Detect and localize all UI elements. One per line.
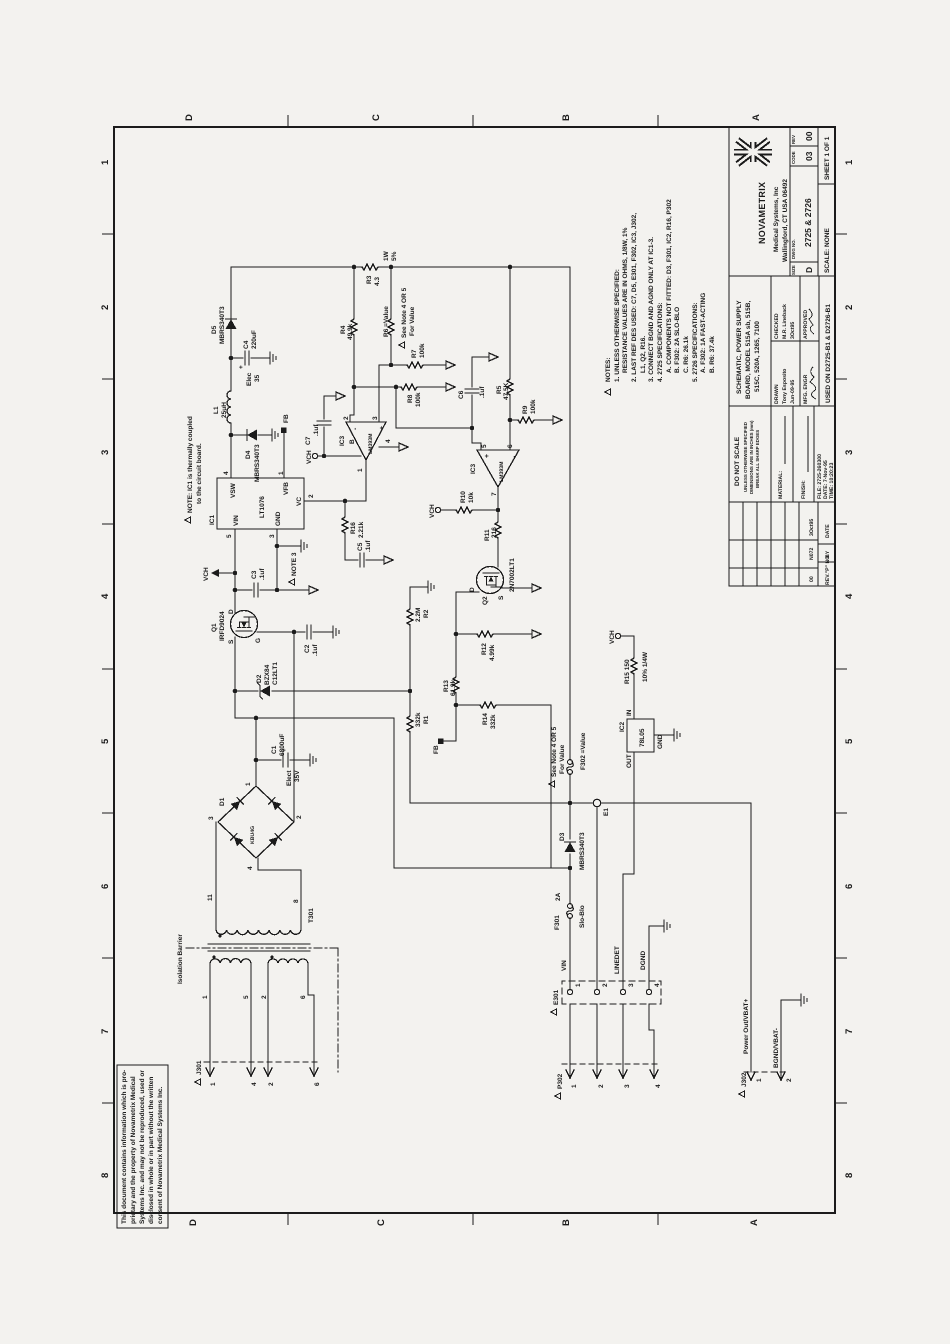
svg-text:3: 3: [624, 1084, 631, 1088]
svg-text:D: D: [184, 114, 195, 121]
svg-text:5: 5: [243, 995, 250, 999]
svg-text:1: 1: [210, 1082, 217, 1086]
fuse F301 2A: [567, 904, 574, 919]
svg-text:+: +: [379, 426, 386, 430]
node C6 junction: [470, 426, 475, 431]
connector J301 dashed line: [204, 1061, 320, 1063]
svg-text:consent of Novametrix Medical: consent of Novametrix Medical Systems In…: [157, 1087, 164, 1224]
svg-text:100k: 100k: [419, 343, 426, 358]
svg-text:J301: J301: [196, 1060, 203, 1075]
svg-text:.1uf: .1uf: [479, 386, 486, 398]
svg-text:NOTE: IC1 is thermally coupled: NOTE: IC1 is thermally coupled: [187, 416, 194, 513]
wire pin5 net vertical: [396, 427, 472, 429]
wire R13 FB line: [443, 592, 456, 741]
svg-text:See Note 4 OR 5: See Note 4 OR 5: [551, 726, 558, 777]
svg-text:C. R6: 26.1k: C. R6: 26.1k: [683, 336, 690, 373]
svg-text:L1, Q2, R16.: L1, Q2, R16.: [640, 336, 647, 373]
output rail vertical: [231, 266, 569, 268]
connector J301 label: [195, 1079, 201, 1085]
svg-text:+: +: [238, 365, 245, 369]
svg-text:UNLESS OTHERWISE SPECIFIED: UNLESS OTHERWISE SPECIFIED: [743, 422, 748, 492]
wire T301 pin11 to bridge AC: [215, 822, 217, 930]
IC3B VCH supply: [312, 453, 317, 458]
wire R9 vertical: [510, 419, 553, 421]
zone ticks bottom: [835, 234, 847, 1103]
wire R1 R2 line: [410, 587, 422, 803]
svg-text:disclosed in whole or in part: disclosed in whole or in part without th…: [148, 1077, 155, 1224]
svg-text:DGND: DGND: [640, 951, 647, 970]
svg-text:VSW: VSW: [230, 482, 237, 498]
transistor Q1 circle: [231, 611, 258, 638]
svg-text:1: 1: [575, 983, 582, 987]
svg-text:5: 5: [481, 444, 488, 448]
svg-text:D: D: [228, 609, 235, 614]
svg-text:to the circuit board.: to the circuit board.: [196, 443, 203, 504]
svg-text:DO NOT SCALE: DO NOT SCALE: [734, 436, 741, 486]
node C3 branch: [233, 588, 238, 593]
net arrow R8: [446, 383, 455, 391]
svg-text:A: A: [749, 1219, 760, 1226]
Novametrix logo: [734, 140, 772, 164]
svg-text:LM393M: LM393M: [368, 434, 374, 454]
svg-text:CHECKED: CHECKED: [774, 313, 780, 339]
wire gnd stub: [277, 545, 295, 547]
svg-text:MBRS340T3: MBRS340T3: [219, 306, 226, 344]
node C4 branch: [229, 356, 234, 361]
svg-text:B. R6: 37.4k: B. R6: 37.4k: [709, 336, 716, 373]
svg-text:R7: R7: [411, 349, 418, 358]
svg-text:2: 2: [296, 815, 303, 819]
node R8 link: [394, 385, 399, 390]
svg-text:B: B: [561, 114, 572, 121]
svg-text:1: 1: [357, 468, 364, 472]
P302 pin 2 arrow: [596, 1004, 598, 1076]
svg-text:2: 2: [844, 305, 855, 310]
svg-text:MBRS340T3: MBRS340T3: [254, 444, 261, 482]
wire winding1 pin5 to J301: [250, 963, 252, 1073]
wire Q1 source run: [234, 637, 236, 718]
svg-text:C7: C7: [305, 436, 312, 445]
svg-text:G: G: [255, 638, 262, 643]
diode D5 MBRS340T3: [226, 319, 237, 329]
net arrow C7: [336, 392, 345, 400]
bridge rectifier D1 KBU4G outline: [218, 786, 294, 858]
wire IC1 VC stub: [304, 500, 366, 502]
J302 pin 1 arrow: [747, 1072, 755, 1080]
node C7 branch: [322, 454, 327, 459]
svg-text:3: 3: [844, 450, 855, 455]
wire R12 vertical: [456, 633, 532, 635]
svg-text:Slo-Blo: Slo-Blo: [579, 905, 586, 928]
svg-text:2: 2: [100, 305, 111, 310]
svg-text:D: D: [804, 267, 814, 273]
svg-text:CODE: CODE: [791, 151, 796, 164]
node E1 branch: [568, 801, 573, 806]
node R8 drop: [352, 385, 357, 390]
svg-text:1: 1: [202, 995, 209, 999]
node rail R5: [508, 265, 513, 270]
svg-text:SCALE: NONE: SCALE: NONE: [824, 228, 831, 273]
svg-text:B: B: [349, 439, 356, 444]
F302 labels: [549, 781, 555, 787]
ground IC2: [668, 729, 680, 741]
svg-text:Q2: Q2: [482, 596, 489, 605]
wire winding1 pin1 to J301: [209, 963, 211, 1073]
svg-text:C: C: [371, 114, 382, 121]
node VCH spur: [233, 571, 238, 576]
ground DGND: [658, 920, 670, 932]
wire C3 to IC1 gnd pin: [276, 529, 278, 590]
wire VIN feed line: [569, 267, 571, 990]
svg-text:NOVAMETRIX: NOVAMETRIX: [757, 182, 767, 244]
svg-text:2.21k: 2.21k: [358, 521, 365, 538]
J302 label: [739, 1091, 745, 1097]
svg-text:GND: GND: [657, 734, 664, 749]
P302 pin 3 arrow: [622, 1004, 624, 1076]
connector J302 dashed line: [744, 1071, 788, 1073]
svg-text:3. CONNECT BGND AND AGND ONLY: 3. CONNECT BGND AND AGND ONLY AT IC1-3.: [648, 237, 655, 382]
wire Q2 source down: [502, 587, 532, 589]
svg-text:For Value: For Value: [409, 306, 416, 336]
svg-text:F302 =Value: F302 =Value: [580, 732, 587, 770]
svg-text:00: 00: [804, 131, 814, 141]
capacitor C2 .1uf: [294, 631, 327, 633]
node D2 branch: [233, 689, 238, 694]
svg-text:BY: BY: [825, 550, 831, 558]
node FB top: [281, 428, 287, 434]
svg-text:VFB: VFB: [283, 482, 290, 495]
op-amp IC3 section B: [346, 422, 386, 460]
svg-text:E1: E1: [603, 808, 610, 816]
svg-text:10% 1/4W: 10% 1/4W: [642, 651, 649, 682]
resistor R16 2.21k: [342, 515, 348, 533]
svg-text:Isolation Barrier: Isolation Barrier: [177, 934, 184, 984]
svg-text:515C, 520A, 1265, 7100: 515C, 520A, 1265, 7100: [754, 321, 761, 392]
wire IC2 out to pin3: [623, 752, 634, 989]
svg-text:DWG NO.: DWG NO.: [791, 239, 796, 259]
J301 pin 4 arrow: [247, 1068, 255, 1076]
svg-text:Power Out/VBAT+: Power Out/VBAT+: [743, 998, 750, 1054]
wire R14 vertical: [456, 705, 569, 868]
inductor L1 25uH: [227, 391, 231, 423]
svg-text:M.R. Lineback: M.R. Lineback: [782, 304, 788, 339]
svg-text:8: 8: [293, 899, 300, 903]
capacitor C5 .1uf: [360, 553, 364, 567]
svg-text:REV."P" NO.: REV."P" NO.: [825, 554, 831, 585]
ground below C2: [327, 626, 339, 638]
E301 label: [551, 1009, 557, 1015]
svg-text:B. F302: 2A SLO-BLO: B. F302: 2A SLO-BLO: [674, 307, 681, 373]
svg-text:LM393M: LM393M: [499, 462, 505, 482]
svg-text:332k: 332k: [415, 712, 422, 727]
wire D1 pin1 to rail: [255, 718, 257, 786]
svg-text:VC: VC: [296, 497, 303, 506]
svg-text:GND: GND: [275, 511, 282, 526]
svg-text:5: 5: [844, 738, 855, 744]
svg-text:F301: F301: [554, 915, 561, 930]
ground D4: [266, 429, 278, 441]
svg-text:4. 2725 SPECIFICATIONS:: 4. 2725 SPECIFICATIONS:: [657, 302, 664, 382]
resistor R10 10k: [456, 507, 474, 513]
svg-text:3Oct95: 3Oct95: [790, 322, 796, 339]
node rail R6: [389, 265, 394, 270]
svg-text:8: 8: [844, 1173, 855, 1178]
net arrow R9: [553, 416, 562, 424]
svg-text:T301: T301: [308, 908, 315, 923]
ground below C1: [304, 754, 316, 766]
main positive rail vertical: [235, 718, 569, 868]
svg-text:IC1: IC1: [209, 515, 216, 526]
resistor R11 216: [495, 520, 501, 538]
svg-text:IN: IN: [626, 709, 633, 716]
svg-text:6800uF: 6800uF: [279, 734, 286, 756]
svg-text:216: 216: [491, 527, 498, 538]
node R12 drop: [454, 632, 459, 637]
net arrow R12: [532, 630, 541, 638]
wire IC3A pin5 jog: [472, 428, 481, 450]
svg-text:C5: C5: [357, 542, 364, 551]
svg-text:Q1: Q1: [211, 623, 218, 632]
svg-text:4: 4: [100, 593, 111, 599]
VCH supply R10: [435, 507, 440, 512]
proprietary notice box: [117, 1065, 168, 1228]
svg-text:S: S: [228, 639, 235, 644]
node rail R4: [352, 265, 357, 270]
zener D2 BZX84: [258, 683, 271, 699]
zone numbers bottom: [844, 159, 855, 1178]
svg-text:A: A: [751, 114, 762, 121]
wire IC3B pin3 line: [378, 365, 380, 422]
wire winding2 pin6 to J301 with jog: [308, 963, 314, 1073]
svg-text:4.99k: 4.99k: [489, 644, 496, 661]
resistor R2 2.2M: [407, 607, 413, 625]
svg-text:Jun-09-95: Jun-09-95: [790, 380, 796, 404]
svg-text:Elec: Elec: [246, 372, 253, 386]
T301 polarity dot: [219, 935, 222, 938]
svg-text:6: 6: [300, 995, 307, 999]
svg-text:1: 1: [756, 1078, 763, 1082]
secondary winding 2: [268, 959, 308, 963]
resistor R14 332k: [480, 702, 498, 708]
svg-text:2: 2: [786, 1078, 793, 1082]
wire link to pin5 line: [395, 387, 397, 428]
svg-text:1: 1: [245, 782, 252, 786]
svg-text:R16: R16: [350, 522, 357, 534]
svg-text:NOTE 3: NOTE 3: [291, 552, 298, 576]
svg-text:.1uf: .1uf: [312, 644, 319, 656]
svg-text:5: 5: [226, 534, 233, 538]
svg-text:DIMENSIONS ARE IN INCHES (mm): DIMENSIONS ARE IN INCHES (mm): [749, 420, 754, 494]
svg-text:BREAK ALL SHARP EDGES: BREAK ALL SHARP EDGES: [755, 430, 760, 488]
svg-text:NOTES:: NOTES:: [605, 357, 612, 382]
wire IC3A pin7 to R10 node: [497, 487, 499, 510]
wire E1 vertical: [410, 803, 751, 1072]
svg-text:5: 5: [100, 738, 111, 744]
svg-text:REV: REV: [791, 135, 796, 144]
svg-text:.1uf: .1uf: [365, 540, 372, 552]
wire E1 to connector pin2: [596, 807, 598, 989]
svg-text:2: 2: [308, 494, 315, 498]
wire R7 vertical: [391, 364, 446, 366]
resistor R6 =Value: [388, 317, 394, 335]
wire VCH to R15: [621, 636, 634, 719]
wire R5 line pin6: [509, 267, 511, 450]
node E1 terminal: [593, 799, 600, 806]
svg-text:P302: P302: [557, 1073, 564, 1089]
capacitor C1 6800uF: [256, 759, 304, 761]
wire IC1 VSW to L1: [230, 423, 232, 478]
svg-text:R8: R8: [407, 394, 414, 403]
svg-text:2: 2: [602, 983, 609, 987]
svg-text:D3: D3: [559, 832, 566, 841]
zone ticks right: [288, 115, 658, 127]
svg-text:2: 2: [598, 1084, 605, 1088]
P302 pin 1 arrow: [569, 1004, 571, 1076]
IC1 LT1076 box: [217, 478, 304, 529]
svg-text:R5: R5: [496, 385, 503, 394]
zone ticks left: [288, 1213, 658, 1225]
connector P302 dashed line: [562, 1063, 658, 1065]
svg-text:SCHEMATIC, POWER SUPPLY: SCHEMATIC, POWER SUPPLY: [736, 300, 743, 394]
svg-text:R2: R2: [423, 609, 430, 618]
svg-text:2725 & 2726: 2725 & 2726: [803, 198, 813, 247]
svg-text:This document contains informa: This document contains information which…: [121, 1070, 128, 1224]
resistor R1 332k: [407, 714, 413, 732]
diode D3 MBRS340T3: [565, 842, 576, 852]
svg-text:35: 35: [254, 374, 261, 382]
svg-text:BGND/VBAT-: BGND/VBAT-: [773, 1028, 780, 1068]
svg-text:47.5K: 47.5K: [503, 382, 510, 400]
svg-text:4: 4: [655, 1084, 662, 1088]
svg-text:FINISH:: FINISH:: [801, 480, 807, 499]
node C1 tap: [254, 758, 259, 763]
J302 pin 2 arrow: [780, 1000, 782, 1078]
svg-text:2A: 2A: [555, 892, 562, 901]
svg-text:100k: 100k: [415, 392, 422, 407]
svg-text:7: 7: [844, 1029, 855, 1034]
node R10 R11 pin7: [496, 508, 501, 513]
svg-text:TIME: 10:20:23: TIME: 10:20:23: [829, 463, 835, 499]
svg-text:4: 4: [654, 983, 661, 987]
wire Q2 drain up: [456, 591, 479, 593]
svg-text:USED ON D2725-B1 & D2726-B1: USED ON D2725-B1 & D2726-B1: [825, 304, 832, 403]
svg-text:BZX84: BZX84: [264, 664, 271, 685]
svg-text:See Note 4 OR 5: See Note 4 OR 5: [401, 287, 408, 338]
svg-text:+: +: [484, 454, 491, 458]
svg-text:SHEET 1 OF 1: SHEET 1 OF 1: [824, 136, 831, 180]
Q1 mosfet symbol: [236, 617, 255, 631]
svg-text:4: 4: [844, 593, 855, 599]
VCH supply IC2: [615, 633, 620, 638]
capacitor C7 .1uf: [324, 396, 336, 456]
svg-text:L1: L1: [213, 406, 220, 414]
wire R8 vertical: [354, 386, 446, 388]
wire pin4 dgnd: [649, 926, 658, 989]
svg-text:1W: 1W: [383, 250, 390, 261]
P302 pin 4 arrow: [649, 1004, 654, 1076]
E301 pin 1: [567, 989, 572, 994]
svg-text:N072: N072: [809, 547, 815, 560]
svg-text:-: -: [352, 427, 359, 430]
svg-text:3Oct95: 3Oct95: [809, 519, 815, 536]
isolation barrier: [186, 948, 338, 1072]
svg-text:SIZE: SIZE: [791, 265, 796, 275]
svg-text:6: 6: [844, 884, 855, 889]
svg-text:MBRS340T3: MBRS340T3: [579, 832, 586, 870]
svg-text:DRAWN: DRAWN: [774, 384, 780, 404]
svg-text:B: B: [561, 1219, 572, 1226]
J301 pin 1 arrow: [206, 1068, 214, 1076]
ground C4: [264, 352, 276, 364]
svg-text:FB: FB: [283, 414, 290, 423]
ground J302: [795, 994, 807, 1006]
wire IC1 VFB to FB node: [283, 431, 285, 478]
svg-text:C3: C3: [251, 570, 258, 579]
resistor R8 100k: [401, 384, 419, 390]
net arrow IC3B pin4: [399, 443, 408, 451]
resistor R3 4.3 in rail: [362, 264, 380, 270]
svg-text:VCH: VCH: [203, 567, 210, 581]
wire D2 branch vertical: [235, 690, 410, 692]
svg-text:1: 1: [571, 1084, 578, 1088]
svg-text:R4: R4: [340, 325, 347, 334]
svg-text:VCH: VCH: [609, 630, 616, 644]
svg-text:KBU4G: KBU4G: [250, 826, 256, 844]
node rail corner to fuse line: [568, 866, 573, 871]
fuse F302 =Value: [567, 760, 574, 775]
svg-text:IRFD9024: IRFD9024: [219, 611, 226, 641]
capacitor C3 .1uf: [235, 589, 309, 591]
wire VC to comparator output: [365, 460, 367, 501]
svg-text:VCH: VCH: [306, 450, 313, 464]
node R7 junction: [389, 363, 394, 368]
svg-text:2: 2: [261, 995, 268, 999]
svg-text:R6 =Value: R6 =Value: [383, 306, 390, 337]
node R9 drop: [508, 418, 513, 423]
signatures: [810, 367, 816, 399]
resistor R9 100k: [518, 417, 536, 423]
svg-text:6: 6: [314, 1082, 321, 1086]
secondary winding 1: [210, 959, 251, 963]
svg-text:C: C: [376, 1219, 387, 1226]
title block: [729, 127, 835, 586]
svg-text:6: 6: [100, 884, 111, 889]
svg-text:61.9k: 61.9k: [450, 679, 457, 696]
D1 diode bottom-left edge: [269, 834, 282, 847]
svg-text:C4: C4: [243, 340, 250, 349]
ground IC1: [295, 540, 307, 552]
svg-text:332k: 332k: [490, 714, 497, 729]
svg-text:Tony Esposito: Tony Esposito: [782, 369, 788, 404]
NOTE 3 label: [289, 579, 295, 585]
svg-text:APPROVED: APPROVED: [803, 310, 809, 339]
svg-text:11: 11: [207, 894, 214, 901]
resistor R12 4.99k: [477, 631, 495, 637]
svg-text:4: 4: [251, 1082, 258, 1086]
svg-text:4: 4: [223, 471, 230, 475]
svg-text:R13: R13: [443, 680, 450, 692]
wire T301 pin8 to bridge AC: [258, 858, 301, 930]
svg-text:prietary and the property of N: prietary and the property of Novametrix …: [130, 1076, 137, 1224]
svg-text:D1: D1: [219, 797, 226, 806]
svg-text:R10: R10: [460, 491, 467, 503]
node rail bridge junction: [254, 716, 259, 721]
svg-text:2N7002LT1: 2N7002LT1: [509, 558, 516, 592]
IC1 thermal note: [185, 517, 191, 523]
wire VIN rail Q1 drain to IC1 pin5: [234, 529, 236, 614]
connector E301 box: [562, 981, 661, 1004]
svg-text:A. F302: 1A FAST-ACTING: A. F302: 1A FAST-ACTING: [700, 293, 707, 373]
